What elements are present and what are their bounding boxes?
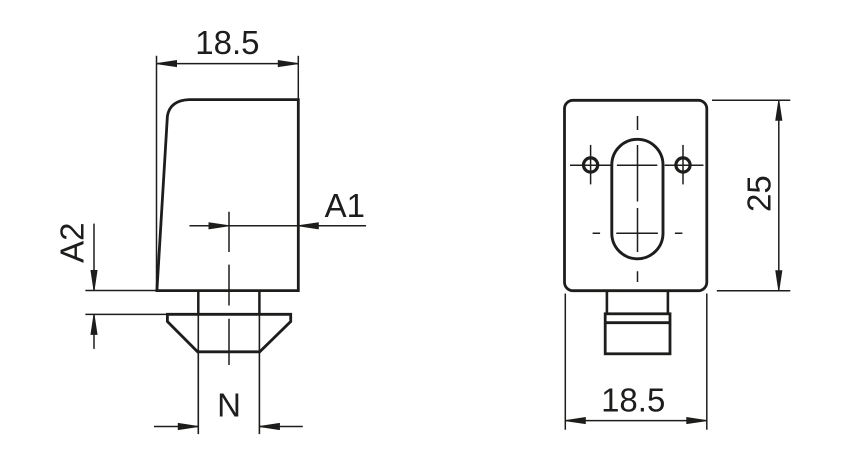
left view body outline bbox=[157, 100, 298, 291]
left view vertical centerline bbox=[228, 212, 230, 365]
dimension 18.5 bottom: left arrowhead bbox=[565, 418, 585, 424]
svg-text:18.5: 18.5 bbox=[195, 24, 259, 61]
dimension 18.5 top: left extension line bbox=[156, 56, 158, 291]
dimension A2: upper extension line bbox=[85, 290, 156, 292]
dimension 18.5 bottom: right extension line bbox=[706, 294, 708, 430]
dimension N: left dimension line with arrowhead bbox=[154, 426, 198, 428]
svg-text:A1: A1 bbox=[325, 187, 365, 224]
svg-text:25: 25 bbox=[741, 175, 778, 212]
dimension 25: top arrowhead bbox=[776, 100, 782, 120]
right view left hole vertical crosshair bbox=[590, 145, 592, 185]
dimension 18.5 bottom: dimension line bbox=[565, 420, 707, 422]
dimension N: right dimension line with arrowhead bbox=[259, 426, 302, 428]
right view head (collar rectangle) bbox=[605, 314, 670, 354]
right view right hole bbox=[676, 158, 690, 172]
left view head (trapezoid) bbox=[167, 314, 290, 352]
svg-text:N: N bbox=[217, 386, 241, 423]
right view right hole vertical crosshair bbox=[682, 145, 684, 185]
dimension 18.5 top: dimension line bbox=[157, 63, 299, 65]
right view vertical centerline bbox=[637, 116, 639, 282]
dimension A1: arrowhead at body edge bbox=[298, 223, 318, 229]
svg-text:A2: A2 bbox=[54, 223, 91, 263]
svg-text:18.5: 18.5 bbox=[601, 382, 665, 419]
left view shaft line right (thin) bbox=[258, 314, 260, 434]
dimension 18.5 bottom: right arrowhead bbox=[687, 418, 707, 424]
dimension A2: upper arrowhead (down) bbox=[91, 271, 97, 291]
dimension A2: lower extension line bbox=[85, 313, 167, 315]
right view neck left edge bbox=[606, 291, 609, 314]
right view neck right edge bbox=[667, 291, 670, 314]
dimension A2: lower arrow shaft bbox=[93, 314, 95, 349]
right view head inner line bbox=[605, 321, 670, 324]
right view body (rounded rectangle) bbox=[565, 100, 707, 290]
dimension 18.5 top: right arrowhead bbox=[278, 61, 298, 67]
left view neck right edge bbox=[258, 291, 261, 315]
right view horizontal centerline through holes bbox=[570, 164, 704, 166]
dimension 25: bottom extension line bbox=[717, 290, 791, 292]
dimension A1: arrowhead at centerline bbox=[209, 223, 229, 229]
dimension A2: lower arrowhead (up) bbox=[91, 314, 97, 334]
right view slot (stadium) bbox=[612, 139, 663, 258]
right view slot bottom arc crosshair bbox=[593, 232, 683, 234]
left view neck left edge bbox=[197, 291, 200, 315]
dimension A2: upper arrow shaft bbox=[93, 224, 95, 291]
dimension 25: bottom arrowhead bbox=[776, 271, 782, 291]
dimension 25: dimension line bbox=[778, 100, 780, 290]
dimension 25: top extension line bbox=[712, 99, 790, 101]
dimension 18.5 bottom: left extension line bbox=[564, 294, 566, 430]
left view shaft line left (thin) bbox=[197, 314, 199, 434]
dimension 18.5 top: right extension line bbox=[297, 56, 299, 100]
right view left hole bbox=[584, 158, 598, 172]
dimension A1: dimension line bbox=[190, 225, 367, 227]
dimension 18.5 top: left arrowhead bbox=[157, 61, 177, 67]
